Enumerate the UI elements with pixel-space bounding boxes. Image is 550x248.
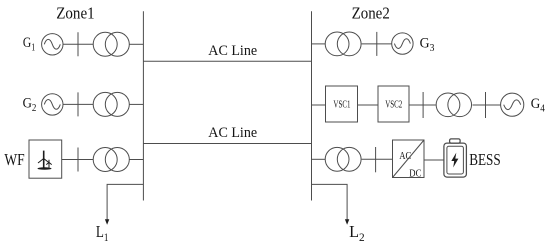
wire AC/DC to battery	[424, 159, 444, 161]
wire load L1 branch	[107, 184, 143, 219]
wire bus B2 to transformer T4	[312, 43, 326, 45]
breaker tick WF	[77, 148, 79, 172]
svg-text:G4: G4	[531, 96, 546, 115]
wire T4 to G3	[362, 43, 392, 45]
wire VSC2 to transformer T5	[409, 104, 436, 106]
svg-text:VSC1: VSC1	[333, 99, 350, 111]
svg-text:AC Line: AC Line	[208, 42, 257, 59]
converter AC/DC box	[393, 140, 425, 178]
wire VSC1 to VSC2	[358, 104, 379, 106]
wire G1 to transformer	[63, 43, 93, 45]
bus B2 (right)	[311, 11, 313, 200]
wind farm WF box	[29, 140, 62, 178]
wire T5 to G4	[473, 104, 501, 106]
svg-text:DC: DC	[409, 168, 421, 179]
svg-text:Zone2: Zone2	[352, 4, 390, 23]
wind turbine small	[46, 160, 51, 168]
battery BESS symbol	[444, 143, 467, 177]
transformer T3	[93, 148, 117, 172]
transformer T6	[325, 147, 349, 171]
wire T6 to AC/DC converter	[362, 158, 393, 160]
svg-text:L2: L2	[349, 222, 365, 244]
generator G2	[42, 94, 63, 115]
svg-text:L1: L1	[96, 222, 109, 244]
breaker tick VSC row 2	[485, 92, 487, 118]
svg-text:G3: G3	[420, 36, 435, 55]
wire G2 to transformer	[63, 103, 93, 105]
generator G1	[42, 34, 63, 55]
generator G4	[501, 93, 524, 116]
wire WF to transformer	[62, 159, 93, 161]
transformer T2	[93, 92, 117, 116]
wire AC line 2	[143, 143, 311, 145]
converter VSC1	[326, 86, 358, 122]
transformer T4	[325, 32, 349, 56]
svg-text:WF: WF	[4, 150, 24, 169]
wire AC line 1	[143, 60, 311, 62]
wire load L2 branch	[312, 184, 348, 219]
bus B1 (left)	[142, 11, 144, 200]
converter VSC2	[378, 86, 409, 122]
wind turbine large	[38, 151, 49, 169]
breaker tick G2	[77, 92, 79, 116]
wire T3 to bus B1	[129, 159, 143, 161]
breaker tick BESS row	[375, 147, 377, 172]
breaker tick G1	[77, 32, 79, 56]
svg-text:G1: G1	[23, 35, 35, 54]
arrow L1	[105, 219, 109, 225]
svg-text:G2: G2	[23, 96, 37, 115]
breaker tick VSC row 1	[422, 92, 424, 118]
wire T2 to bus B1	[129, 103, 143, 105]
svg-text:BESS: BESS	[469, 150, 501, 169]
transformer T5	[436, 93, 460, 117]
svg-text:Zone1: Zone1	[56, 4, 94, 23]
breaker tick G3	[376, 32, 378, 56]
battery lightning bolt	[451, 153, 458, 168]
generator G3	[392, 33, 413, 54]
svg-text:VSC2: VSC2	[385, 99, 402, 111]
wire bus B2 to transformer T6	[312, 158, 326, 160]
wire T1 to bus B1	[129, 43, 143, 45]
wire bus B2 to VSC1	[312, 104, 326, 106]
svg-text:AC: AC	[399, 151, 411, 162]
arrow L2	[345, 219, 349, 225]
transformer T1	[93, 32, 117, 56]
svg-text:AC Line: AC Line	[208, 124, 257, 141]
wind turbine ground shadow	[38, 167, 52, 170]
